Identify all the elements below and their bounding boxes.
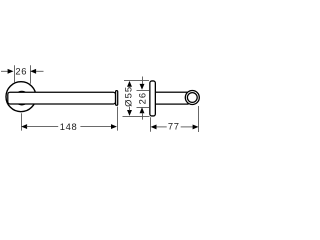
dim 26 side bottom extension line xyxy=(137,107,150,109)
side view knob inner circle xyxy=(187,93,197,103)
dimension 148 (front, bottom) xyxy=(21,107,117,132)
dim 26 left extension line xyxy=(14,65,16,82)
dim 148 left arrowhead xyxy=(21,124,27,129)
dim 77 line left segment xyxy=(156,126,166,128)
dim 77 right arrowhead xyxy=(193,124,199,129)
dim 26 side bottom arrowhead xyxy=(140,107,145,113)
dim Ø55 bottom extension line xyxy=(123,116,150,118)
side view wall plate xyxy=(150,81,156,116)
front view bar xyxy=(8,92,116,104)
dim 26 side top arrowhead xyxy=(140,84,145,90)
dim Ø55 top arrowhead xyxy=(127,81,132,87)
dim 26 right leader line xyxy=(36,70,44,72)
dim 77 line right segment xyxy=(181,126,193,128)
dim 26 right arrowhead xyxy=(30,69,36,74)
dim 26 side bottom leader line xyxy=(142,113,144,120)
dim 148 line left segment xyxy=(27,126,59,128)
dimension 26 (side) xyxy=(136,77,149,120)
dim Ø55 line segment xyxy=(129,107,131,111)
dim 26 left leader line xyxy=(1,70,8,72)
front view end disc xyxy=(116,91,118,106)
dim 77 left arrowhead xyxy=(151,124,157,129)
dim Ø55 top extension line xyxy=(124,80,149,82)
dim 148 right extension line xyxy=(117,107,119,131)
dim 26 right extension line xyxy=(30,65,32,84)
dim 26 left arrowhead xyxy=(8,69,14,74)
dim 26 side top leader line xyxy=(142,77,144,85)
dim Ø55 bottom arrowhead xyxy=(127,110,132,116)
svg-text:148: 148 xyxy=(60,121,78,132)
dimension 26 (front, top) xyxy=(1,65,44,84)
front view rosette outer circle xyxy=(6,82,36,112)
front view hub circle xyxy=(15,91,29,105)
svg-text:Ø55: Ø55 xyxy=(123,86,134,107)
side view knob outer circle xyxy=(185,91,199,105)
svg-text:26: 26 xyxy=(136,92,147,105)
dimension 77 (side, bottom) xyxy=(151,106,199,132)
side view bar xyxy=(155,92,188,104)
dim 26 side top extension line xyxy=(137,90,150,92)
dim 77 left extension line xyxy=(150,117,152,132)
svg-text:26: 26 xyxy=(15,66,27,77)
svg-text:77: 77 xyxy=(168,121,180,132)
dimension Ø55 (side, left) xyxy=(123,81,150,117)
dim 148 left extension line xyxy=(21,113,23,130)
dim 148 line right segment xyxy=(80,126,111,128)
dim 77 right extension line xyxy=(198,106,200,132)
dim 148 right arrowhead xyxy=(111,124,117,129)
